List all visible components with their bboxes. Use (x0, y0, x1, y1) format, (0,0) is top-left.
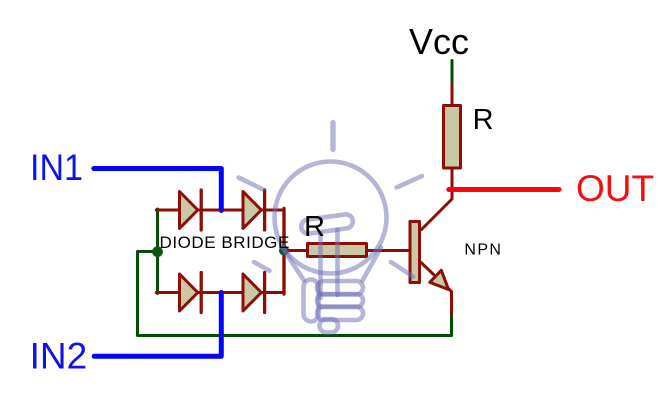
svg-text:IN2: IN2 (30, 336, 88, 377)
bulb neck right line (363, 248, 382, 281)
wire: red OUT net (449, 187, 559, 192)
bulb ray lower-left (254, 262, 270, 271)
diode D4 (bottom-right) (243, 273, 265, 313)
bulb neck left line (282, 247, 305, 281)
svg-text:Vcc: Vcc (409, 21, 469, 62)
wire: maroon lead resistor bottom to collector bend (422, 169, 453, 230)
junction node dot (left, bridge output) (152, 246, 163, 257)
resistor R (vertical, collector pull-up) (444, 106, 461, 169)
svg-text:IN1: IN1 (30, 147, 83, 188)
wire: bridge right rail (maroon) (282, 209, 285, 295)
resistor R (horizontal, base) (308, 244, 367, 257)
bulb ray upper-right (397, 176, 423, 188)
wire: green left rail of diode bridge (156, 209, 159, 294)
wire: blue IN1 net (94, 169, 222, 211)
bulb glass circle (275, 162, 387, 274)
wire: blue IN2 net (94, 293, 221, 357)
transistor Q1 emitter lead with pin (421, 263, 452, 314)
bulb ray lower-right (391, 262, 413, 277)
bulb filament capsule (300, 213, 353, 234)
bulb filament wire left (318, 233, 323, 298)
wire: bridge top horizontal (maroon) (156, 209, 284, 212)
diode D1 (top-left) (180, 190, 202, 230)
wire: bridge bottom horizontal (maroon) (156, 291, 284, 294)
svg-text:R: R (304, 211, 325, 243)
bulb base ring 1 (317, 281, 363, 295)
bulb ray upper-left (239, 178, 264, 190)
wire: maroon stub Vcc resistor top lead (451, 84, 454, 105)
svg-text:DIODE BRIDGE: DIODE BRIDGE (160, 233, 290, 252)
transistor Q1 emitter arrowhead (430, 270, 449, 289)
light bulb watermark (semi-transparent, drawn over circuit) (239, 123, 423, 333)
transistor Q1 NPN: base bar (410, 222, 420, 283)
diode D2 (top-right) (243, 190, 265, 230)
diode D3 (bottom-left) (180, 273, 202, 313)
wire: green branch from left node down and along bottom to emitter (138, 252, 452, 336)
svg-text:NPN: NPN (464, 242, 501, 259)
svg-text:R: R (473, 104, 494, 136)
svg-text:OUT: OUT (576, 168, 654, 209)
bulb base left capsule (304, 280, 319, 322)
wire: maroon from right node to base resistor (284, 249, 307, 252)
bulb filament wire right (335, 230, 340, 295)
wire: maroon from base resistor to transistor base (368, 249, 409, 252)
bulb ray top (330, 123, 335, 150)
bulb base tip capsule (320, 319, 339, 333)
junction node dot (right, bridge output) (279, 246, 289, 256)
bulb base ring 3 (317, 307, 363, 321)
bulb base ring 2 (317, 294, 363, 307)
wire: green net from Vcc label to resistor R (top stub) (451, 61, 454, 86)
